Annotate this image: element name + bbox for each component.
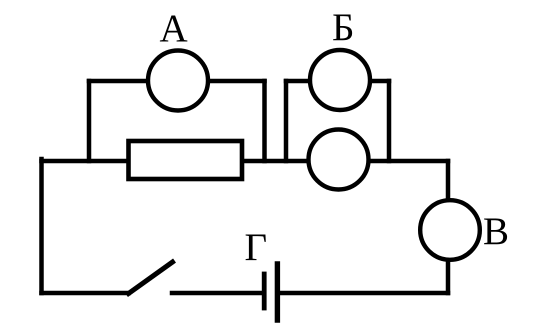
svg-text:Г: Г [245, 226, 268, 269]
svg-text:Б: Б [332, 6, 354, 49]
svg-text:А: А [160, 7, 188, 50]
svg-text:В: В [483, 210, 509, 253]
